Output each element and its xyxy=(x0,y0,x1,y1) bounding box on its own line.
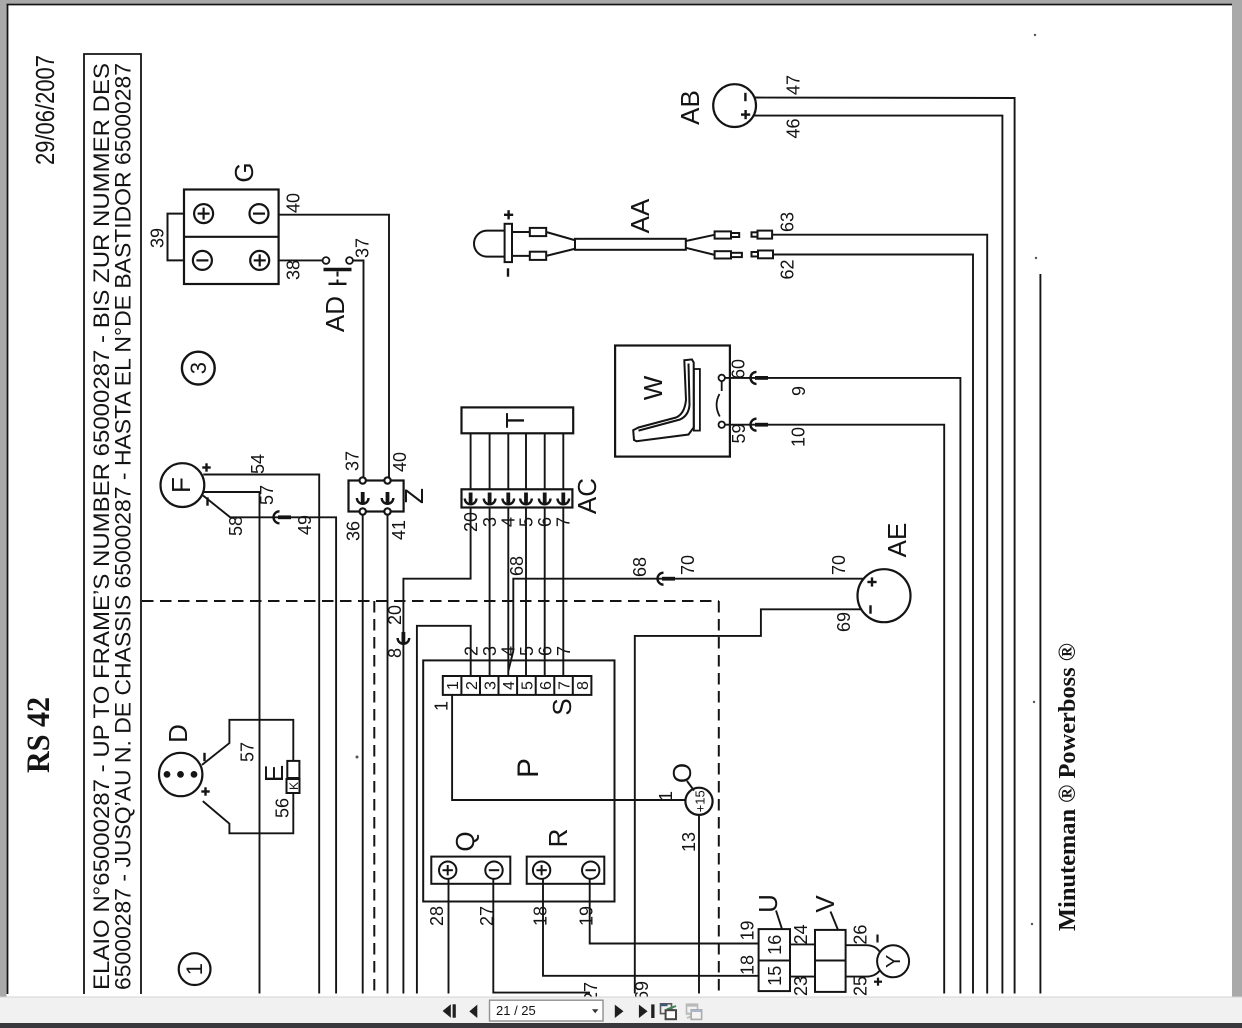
wire 69 xyxy=(635,609,862,993)
svg-text:Q: Q xyxy=(450,831,480,851)
wire 68 branch xyxy=(508,579,863,671)
svg-text:6: 6 xyxy=(538,681,555,690)
wire 13 xyxy=(698,815,700,994)
svg-text:27: 27 xyxy=(477,906,497,926)
svg-text:41: 41 xyxy=(389,520,409,540)
svg-text:39: 39 xyxy=(148,228,168,248)
battery link 39 xyxy=(168,214,185,261)
wire 20 / 8 xyxy=(403,508,470,994)
svg-text:70: 70 xyxy=(829,555,849,575)
svg-text:15: 15 xyxy=(765,966,785,986)
V plus xyxy=(874,978,882,986)
svg-text:68: 68 xyxy=(507,556,527,576)
connector S xyxy=(443,676,592,695)
seat pictogram xyxy=(633,359,700,441)
wire 27 xyxy=(493,879,590,993)
svg-text:57: 57 xyxy=(257,485,277,505)
svg-text:13: 13 xyxy=(679,832,699,852)
AE minus xyxy=(869,605,871,613)
page border top xyxy=(7,4,1233,6)
wires AC to S xyxy=(490,508,564,677)
wire 36 xyxy=(362,515,364,994)
control unit P box xyxy=(423,660,614,901)
svg-text:57: 57 xyxy=(238,742,258,762)
O leader line xyxy=(687,781,694,791)
svg-text:37: 37 xyxy=(353,238,373,258)
svg-text:54: 54 xyxy=(248,454,268,474)
circled 1 xyxy=(179,953,211,985)
flasher V xyxy=(815,930,846,992)
AA plus xyxy=(504,210,513,219)
horn AB xyxy=(713,84,756,127)
svg-text:25: 25 xyxy=(851,976,871,996)
page number box xyxy=(490,1000,604,1021)
svg-text:23: 23 xyxy=(791,976,811,996)
D plus xyxy=(201,787,209,795)
Z coil contact symbols xyxy=(357,492,369,504)
terminal block R xyxy=(527,857,605,884)
first page button xyxy=(443,1004,456,1017)
dropdown caret xyxy=(592,1009,598,1013)
wire 28 xyxy=(448,879,450,994)
svg-text:60: 60 xyxy=(729,359,749,379)
svg-text:8: 8 xyxy=(385,648,405,658)
svg-text:28: 28 xyxy=(427,906,447,926)
svg-text:AD: AD xyxy=(320,296,350,332)
svg-text:1: 1 xyxy=(445,681,462,690)
wire 59 / 10 xyxy=(725,425,944,994)
svg-text:20: 20 xyxy=(385,605,405,625)
connector 59-10 xyxy=(751,419,769,431)
wire 23 xyxy=(790,976,815,978)
relay block Z xyxy=(349,477,404,514)
svg-text:29/06/2007: 29/06/2007 xyxy=(30,55,60,165)
dashed separator vertical right xyxy=(718,601,720,994)
connector AC xyxy=(462,489,573,507)
brush motor AE xyxy=(858,569,911,622)
svg-text:7: 7 xyxy=(557,681,574,690)
next page button xyxy=(615,1005,624,1018)
battery G xyxy=(184,190,279,285)
last page button xyxy=(639,1004,655,1018)
svg-text:62: 62 xyxy=(778,259,798,279)
svg-text:Z: Z xyxy=(399,488,429,504)
wire 58 / 49 xyxy=(203,496,336,994)
buzzer Y xyxy=(877,945,909,977)
svg-text:U: U xyxy=(753,894,783,913)
toolbar background xyxy=(0,997,1242,1023)
AB minus xyxy=(744,93,746,101)
V minus xyxy=(876,935,878,943)
toolbar dark bottom strip xyxy=(0,1023,1242,1028)
svg-text:69: 69 xyxy=(834,612,854,632)
svg-text:36: 36 xyxy=(344,521,364,541)
svg-text:10: 10 xyxy=(789,427,809,447)
svg-text:5: 5 xyxy=(517,646,537,656)
svg-text:65000287 - JUSQ’AU N. DE CHASS: 65000287 - JUSQ’AU N. DE CHASSIS 6500028… xyxy=(111,63,136,990)
svg-text:D: D xyxy=(163,724,193,743)
svg-text:70: 70 xyxy=(678,555,698,575)
frame edge line right xyxy=(1039,274,1041,994)
wire 63 xyxy=(772,235,987,994)
svg-text:21 / 25: 21 / 25 xyxy=(496,1003,536,1018)
svg-text:Y: Y xyxy=(883,955,905,968)
svg-text:3: 3 xyxy=(186,362,211,374)
wire 18 xyxy=(543,879,759,976)
dashed separator horizontal xyxy=(142,600,719,602)
svg-text:V: V xyxy=(810,895,840,913)
svg-text:F: F xyxy=(166,477,196,493)
svg-text:O: O xyxy=(667,763,697,783)
svg-text:7: 7 xyxy=(554,646,574,656)
wire 26 xyxy=(846,945,880,951)
svg-text:19: 19 xyxy=(577,906,597,926)
svg-text:49: 49 xyxy=(295,515,315,535)
svg-text:E: E xyxy=(259,765,289,782)
wire 57 xyxy=(204,492,260,994)
svg-text:P: P xyxy=(512,758,545,778)
svg-text:1: 1 xyxy=(182,963,207,975)
svg-text:3: 3 xyxy=(483,681,500,690)
svg-text:18: 18 xyxy=(738,955,758,975)
svg-text:AB: AB xyxy=(675,90,705,125)
svg-text:63: 63 xyxy=(778,212,798,232)
previous page button xyxy=(469,1005,477,1018)
wire 19 xyxy=(590,879,759,944)
svg-text:S: S xyxy=(547,698,577,715)
svg-text:26: 26 xyxy=(851,925,871,945)
svg-text:56: 56 xyxy=(273,798,293,818)
svg-text:RS 42: RS 42 xyxy=(21,697,57,773)
fuel gauge F xyxy=(161,463,205,507)
svg-text:+15: +15 xyxy=(693,790,708,812)
svg-text:1: 1 xyxy=(432,701,452,711)
wire 41 xyxy=(387,515,389,994)
D minus xyxy=(203,753,205,761)
U leader line xyxy=(776,911,782,930)
resistor E xyxy=(287,761,299,778)
svg-text:1: 1 xyxy=(656,791,676,801)
wires T to AC xyxy=(471,433,564,489)
ignition terminal +15 xyxy=(685,788,712,815)
svg-text:46: 46 xyxy=(784,118,804,138)
svg-text:18: 18 xyxy=(531,906,551,926)
wire 60 / 9 xyxy=(725,378,961,994)
circled 3 xyxy=(182,352,215,385)
svg-text:2: 2 xyxy=(464,681,481,690)
F minus xyxy=(206,497,208,505)
gray margin right xyxy=(1232,0,1242,997)
seat switch W box xyxy=(615,346,730,457)
gray margin left xyxy=(0,0,7,997)
wire 54 xyxy=(203,475,319,994)
svg-text:3: 3 xyxy=(480,646,500,656)
svg-text:W: W xyxy=(638,375,668,400)
svg-text:6: 6 xyxy=(536,646,556,656)
page border left xyxy=(7,4,9,994)
wire D plus to resistor E xyxy=(203,793,293,833)
key switch AD xyxy=(323,257,353,284)
svg-text:40: 40 xyxy=(284,193,304,213)
svg-text:T: T xyxy=(500,412,530,428)
svg-text:37: 37 xyxy=(343,451,363,471)
svg-text:24: 24 xyxy=(791,924,811,944)
svg-text:38: 38 xyxy=(284,260,304,280)
move page left icon xyxy=(661,1004,677,1019)
wire 46 xyxy=(754,116,1003,994)
svg-text:68: 68 xyxy=(630,557,650,577)
connector 68-70 xyxy=(658,573,676,585)
svg-text:2: 2 xyxy=(462,646,482,656)
wire 25 xyxy=(846,971,880,977)
connector 8-20 xyxy=(398,632,410,644)
wire 40 battery to Z xyxy=(279,215,389,481)
terminal block Q xyxy=(431,857,510,884)
connector U xyxy=(759,929,790,991)
gray margin top xyxy=(0,0,1242,4)
hour meter D xyxy=(159,753,202,796)
AB plus xyxy=(741,110,750,119)
wire 37 key switch to Z xyxy=(353,261,364,481)
svg-text:58: 58 xyxy=(226,516,246,536)
connector 49 xyxy=(274,511,292,523)
svg-text:8: 8 xyxy=(575,681,592,690)
svg-text:AA: AA xyxy=(625,198,655,233)
beacon lamp AA xyxy=(474,224,773,262)
svg-text:16: 16 xyxy=(765,935,785,955)
AE plus xyxy=(867,577,876,586)
connector T xyxy=(462,407,574,433)
wire 38 battery to key switch xyxy=(279,259,323,261)
wire 24 xyxy=(790,943,815,945)
dashed separator vertical left xyxy=(373,601,375,994)
AA minus xyxy=(507,268,509,276)
svg-text:R: R xyxy=(543,829,573,848)
svg-text:Minuteman ® Powerboss ®: Minuteman ® Powerboss ® xyxy=(1054,643,1081,931)
wire 1 from S pin 1 xyxy=(452,695,685,800)
svg-text:4: 4 xyxy=(499,646,519,656)
speck dots xyxy=(1034,34,1036,36)
seat switch contacts xyxy=(719,375,725,381)
connector 60-9 xyxy=(751,372,769,384)
svg-text:40: 40 xyxy=(390,452,410,472)
V leader line xyxy=(831,912,839,930)
svg-text:9: 9 xyxy=(789,386,809,396)
move page right icon (disabled) xyxy=(687,1004,702,1019)
seat switch blade xyxy=(717,382,722,417)
svg-text:47: 47 xyxy=(784,75,804,95)
svg-text:AC: AC xyxy=(572,478,602,514)
wire 2 xyxy=(417,626,471,994)
F plus xyxy=(202,463,210,471)
svg-text:AE: AE xyxy=(882,523,912,558)
wire 47 xyxy=(755,98,1015,994)
wire 62 xyxy=(773,255,973,994)
title box xyxy=(84,54,141,994)
svg-text:5: 5 xyxy=(520,681,537,690)
svg-text:4: 4 xyxy=(501,681,518,690)
svg-text:59: 59 xyxy=(729,423,749,443)
wire D minus to resistor E xyxy=(202,720,293,765)
svg-text:19: 19 xyxy=(738,920,758,940)
svg-text:G: G xyxy=(229,162,259,182)
svg-text:K: K xyxy=(287,782,301,790)
